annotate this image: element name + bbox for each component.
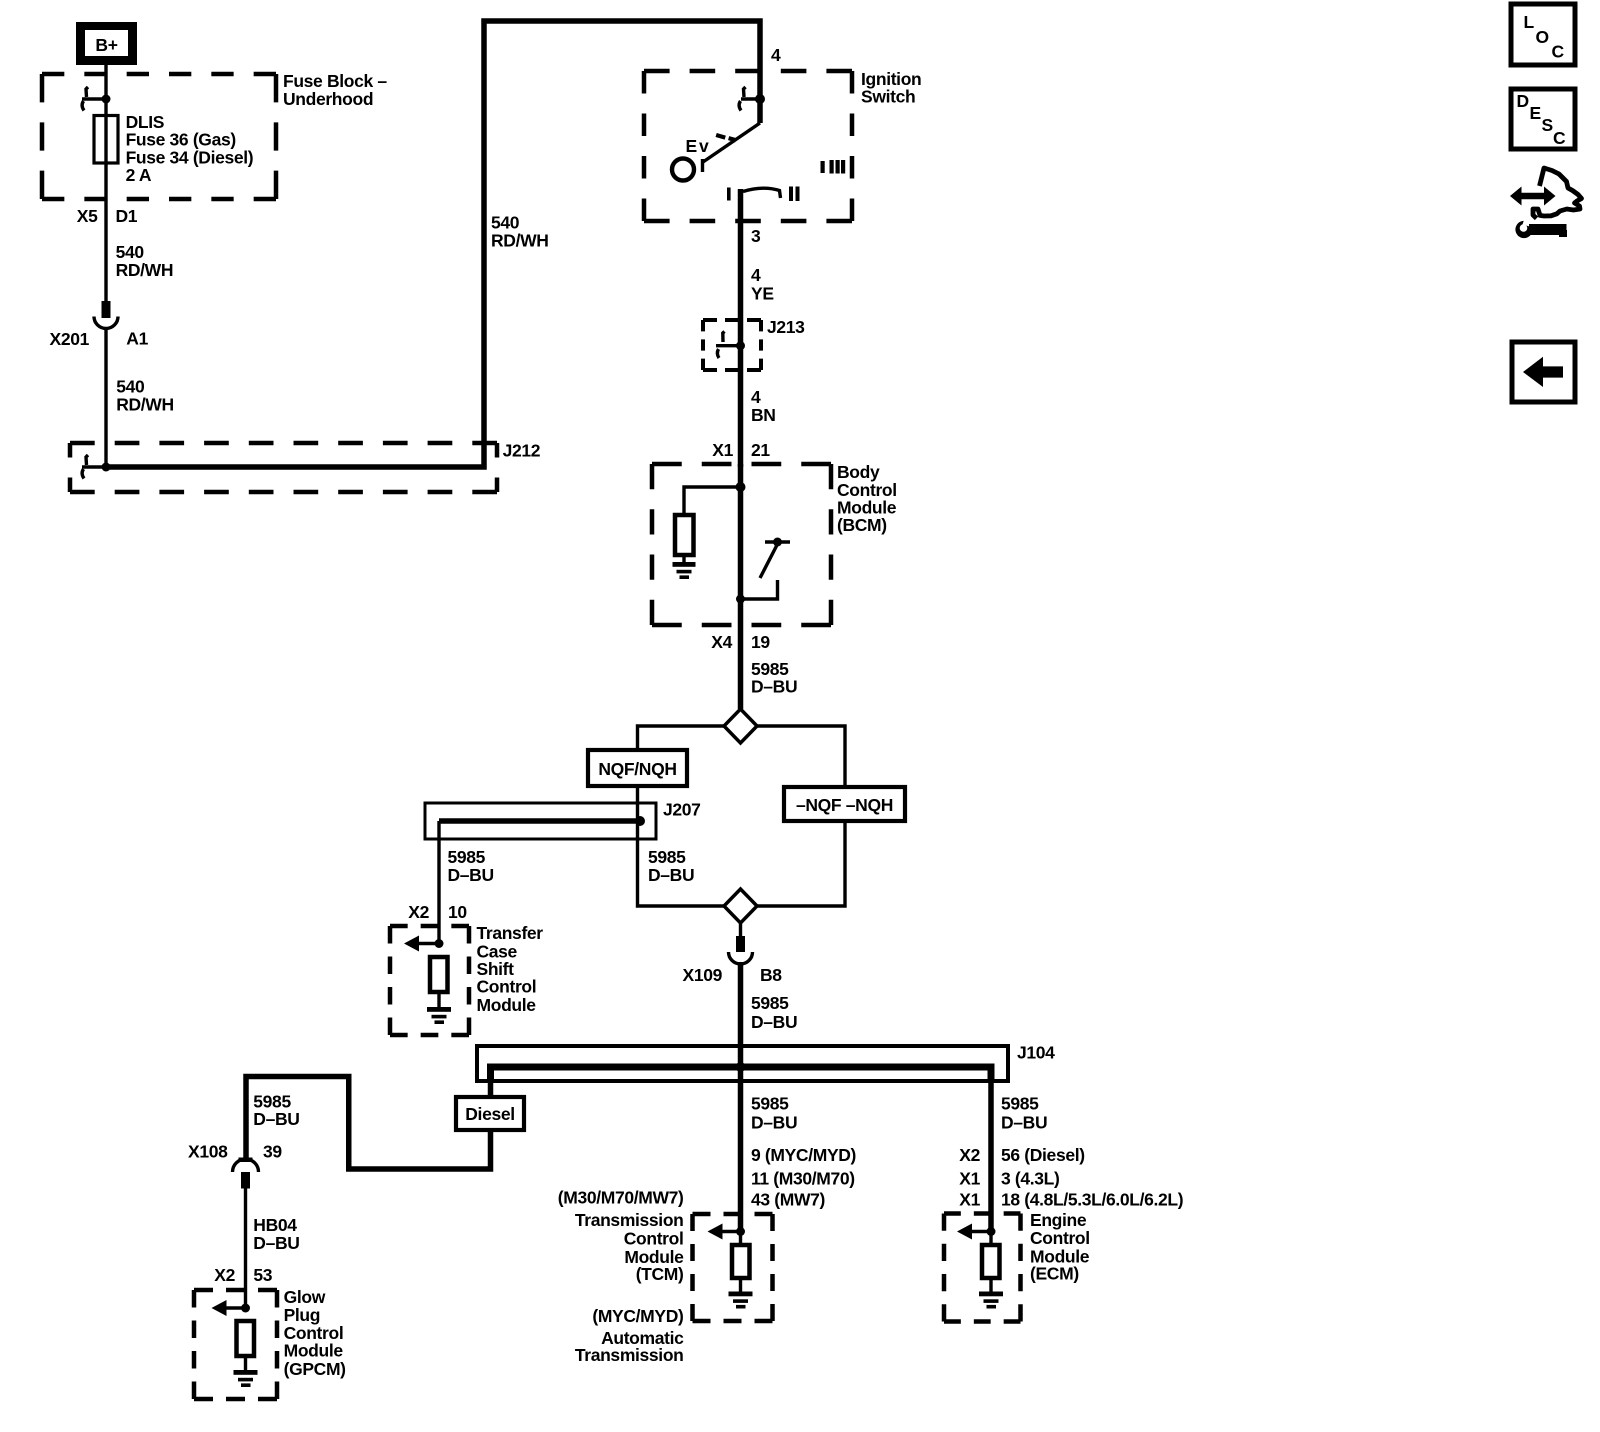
svg-text:5985: 5985 (1001, 1094, 1039, 1114)
arrow into transfer case module (404, 936, 444, 952)
glow plug control module GPCM dashed box (194, 1290, 277, 1399)
node BCM junction to resistor (736, 482, 746, 492)
svg-text:39: 39 (263, 1142, 282, 1162)
svg-text:2 A: 2 A (126, 165, 152, 185)
wire ignition contact stub (757, 99, 763, 123)
wire TCM junction to resistor (739, 1232, 742, 1246)
svg-text:J213: J213 (767, 317, 805, 337)
svg-text:540: 540 (491, 213, 520, 233)
svg-text:Switch: Switch (861, 87, 915, 107)
svg-text:5985: 5985 (448, 847, 486, 867)
svg-text:RD/WH: RD/WH (491, 231, 549, 251)
svg-text:v: v (699, 136, 709, 156)
svg-text:S: S (1542, 115, 1553, 135)
svg-text:X201: X201 (50, 329, 90, 349)
ignition switch dashed box (644, 71, 852, 221)
node BCM output junction (736, 595, 745, 604)
ground BCM internal (673, 562, 696, 579)
ground TCM (729, 1292, 753, 1309)
svg-text:Plug: Plug (284, 1305, 321, 1325)
splice symbol J213 (716, 332, 745, 359)
svg-text:18 (4.8L/5.3L/6.0L/6.2L): 18 (4.8L/5.3L/6.0L/6.2L) (1001, 1190, 1183, 1210)
svg-text:11 (M30/M70): 11 (M30/M70) (751, 1169, 855, 1189)
splice pack J104 (477, 1046, 1008, 1081)
svg-text:5985: 5985 (751, 993, 789, 1013)
splice J213 dashed box (703, 320, 761, 370)
wire BCM resistor branch (684, 487, 741, 515)
wire diamond to X109 (739, 923, 742, 938)
svg-text:Control: Control (1030, 1228, 1090, 1248)
wire J104 to ECM (988, 1081, 994, 1232)
ground GPCM (234, 1370, 258, 1387)
wire J207 tap to transfer case (437, 821, 440, 944)
option box Diesel (456, 1097, 524, 1130)
ignition input terminal splice (739, 87, 765, 111)
svg-text:D–BU: D–BU (751, 677, 797, 697)
svg-text:4: 4 (751, 265, 761, 285)
splice in fuse block (82, 87, 111, 111)
svg-text:19: 19 (751, 632, 770, 652)
svg-text:(MYC/MYD): (MYC/MYD) (592, 1306, 683, 1326)
position mark I (bottom) (727, 188, 731, 201)
transmission control module TCM dashed box (693, 1214, 773, 1321)
svg-text:Body: Body (837, 462, 880, 482)
svg-text:J207: J207 (663, 800, 701, 820)
wire X109 to J104 (738, 962, 744, 1081)
svg-text:L: L (1524, 12, 1535, 32)
wire resistor to ground (682, 555, 685, 562)
splice J212 dashed box (70, 443, 497, 492)
svg-text:B+: B+ (95, 35, 117, 55)
arrow into GPCM (212, 1300, 251, 1316)
inline connector X201 pin A1 (94, 301, 118, 329)
position sweep arc to II (743, 188, 781, 198)
wire X201 to J212 (104, 330, 107, 467)
svg-text:5985: 5985 (751, 1094, 789, 1114)
svg-text:X2: X2 (214, 1265, 235, 1285)
svg-text:5985: 5985 (648, 847, 686, 867)
svg-text:53: 53 (253, 1265, 272, 1285)
resistor TCM (732, 1245, 750, 1278)
svg-text:(ECM): (ECM) (1030, 1264, 1079, 1284)
svg-text:D: D (1517, 91, 1529, 111)
svg-text:BN: BN (751, 405, 776, 425)
wire resistor to ground (GPCM) (244, 1356, 247, 1370)
svg-text:D–BU: D–BU (253, 1233, 299, 1253)
svg-text:Transfer: Transfer (477, 923, 544, 943)
svg-text:J104: J104 (1017, 1043, 1055, 1063)
battery terminal B+ (76, 22, 137, 65)
svg-text:540: 540 (116, 377, 145, 397)
svg-text:D–BU: D–BU (751, 1113, 797, 1133)
svg-text:3 (4.3L): 3 (4.3L) (1001, 1169, 1059, 1189)
wire option loop right (757, 726, 845, 906)
wire ECM junction to resistor (989, 1232, 992, 1246)
svg-text:Fuse Block –: Fuse Block – (283, 71, 387, 91)
wire X108 to GPCM (244, 1186, 247, 1308)
svg-text:X108: X108 (188, 1142, 228, 1162)
svg-text:43 (MW7): 43 (MW7) (751, 1190, 825, 1210)
position mark I III (right) (821, 160, 846, 174)
option split diamond (top) (724, 709, 757, 743)
svg-text:D–BU: D–BU (1001, 1113, 1047, 1133)
svg-text:X109: X109 (683, 965, 723, 985)
svg-text:4: 4 (751, 387, 761, 407)
splice pack J207 (425, 803, 656, 839)
svg-text:(TCM): (TCM) (636, 1264, 684, 1284)
svg-text:Engine: Engine (1030, 1210, 1087, 1230)
wire BCM switch hook to output (741, 580, 778, 599)
wire option loop left (638, 726, 725, 906)
wire B+ to fuse block (104, 65, 107, 99)
resistor ECM (982, 1245, 1000, 1278)
svg-text:E: E (686, 136, 697, 156)
arrow into ECM (957, 1224, 996, 1240)
ignition switch lever (703, 123, 760, 162)
svg-text:Module: Module (477, 995, 537, 1015)
svg-text:9 (MYC/MYD): 9 (MYC/MYD) (751, 1145, 856, 1165)
svg-text:Transmission: Transmission (575, 1345, 684, 1365)
wire resistor to ground (transfer case) (437, 992, 440, 1007)
svg-text:Transmission: Transmission (575, 1210, 684, 1230)
ignition rotor circle (672, 159, 694, 181)
wire splice to fuse DLIS (104, 99, 107, 115)
svg-text:RD/WH: RD/WH (116, 395, 174, 415)
transfer case shift control module dashed box (390, 926, 469, 1035)
wire J104 to TCM (738, 1081, 744, 1232)
icon LOC button (1511, 4, 1575, 65)
svg-text:C: C (1553, 128, 1566, 148)
wire heavy feed J212 to ignition switch (106, 21, 760, 467)
svg-text:4: 4 (771, 45, 781, 65)
option box -NQF -NQH (784, 787, 905, 821)
engine control module ECM dashed box (944, 1214, 1021, 1322)
svg-text:O: O (1536, 27, 1549, 47)
svg-text:(GPCM): (GPCM) (284, 1359, 346, 1379)
fuse block underhood dashed box (42, 74, 276, 199)
svg-text:D1: D1 (116, 206, 138, 226)
svg-text:B8: B8 (760, 965, 782, 985)
resistor transfer case (430, 957, 448, 992)
svg-text:Glow: Glow (284, 1287, 326, 1307)
svg-text:HB04: HB04 (253, 1215, 297, 1235)
inline connector X108 pin 39 (233, 1158, 259, 1189)
svg-text:–NQF –NQH: –NQF –NQH (796, 795, 893, 815)
svg-text:X2: X2 (408, 902, 429, 922)
svg-text:Control: Control (624, 1229, 684, 1249)
svg-text:RD/WH: RD/WH (116, 260, 174, 280)
svg-text:56 (Diesel): 56 (Diesel) (1001, 1145, 1085, 1165)
splice symbol J212 (82, 455, 111, 479)
svg-text:3: 3 (751, 226, 761, 246)
wire BCM internal main (738, 464, 744, 599)
inline connector X109 pin B8 (729, 936, 753, 964)
svg-text:YE: YE (751, 284, 774, 304)
position mark II (789, 187, 800, 202)
svg-text:E: E (1530, 103, 1541, 123)
arrow into TCM (708, 1224, 746, 1240)
wire fuse to X201 (104, 163, 107, 301)
svg-text:X2: X2 (959, 1145, 980, 1165)
wire Diesel zigzag to X108 (246, 1077, 491, 1170)
wire resistor to ground (TCM) (739, 1278, 742, 1292)
icon back arrow button (1512, 342, 1575, 402)
BCM switch lever (760, 545, 777, 578)
svg-text:10: 10 (448, 902, 467, 922)
svg-text:C: C (1552, 42, 1565, 62)
wire J213 to BCM pin 21 (738, 345, 744, 467)
BCM switch fixed contact (765, 538, 790, 547)
svg-text:D–BU: D–BU (648, 865, 694, 885)
svg-text:Module: Module (284, 1341, 344, 1361)
svg-text:A1: A1 (126, 329, 148, 349)
ground ECM (979, 1292, 1003, 1309)
svg-text:X4: X4 (711, 632, 732, 652)
svg-text:D–BU: D–BU (751, 1012, 797, 1032)
svg-text:21: 21 (751, 440, 770, 460)
svg-text:Control: Control (477, 977, 537, 997)
svg-text:X1: X1 (959, 1169, 980, 1189)
body control module BCM dashed box (652, 464, 831, 625)
svg-text:J212: J212 (503, 441, 541, 461)
ignition rotor contact tick (701, 159, 704, 172)
svg-text:D–BU: D–BU (448, 865, 494, 885)
svg-text:NQF/NQH: NQF/NQH (598, 759, 676, 779)
option box NQF/NQH (588, 750, 687, 786)
svg-text:D–BU: D–BU (253, 1109, 299, 1129)
wire J104 to Diesel box (488, 1081, 494, 1097)
svg-text:(M30/M70/MW7): (M30/M70/MW7) (558, 1188, 684, 1208)
svg-text:X1: X1 (712, 440, 733, 460)
resistor GPCM (237, 1321, 255, 1356)
svg-text:540: 540 (116, 242, 145, 262)
ground transfer case (427, 1007, 451, 1024)
svg-text:X5: X5 (77, 206, 98, 226)
svg-text:Diesel: Diesel (465, 1104, 514, 1124)
option merge diamond (bottom) (724, 889, 757, 923)
wire ignition output pin 3 to J213 (738, 189, 744, 345)
resistor BCM pull-down (675, 515, 694, 555)
svg-text:(BCM): (BCM) (837, 515, 887, 535)
svg-text:X1: X1 (959, 1190, 980, 1210)
fuse DLIS (Fuse 36 Gas / Fuse 34 Diesel, 2 A) (94, 116, 118, 164)
icon schematic navigation (arrows, outline, wrench) (1510, 168, 1582, 238)
icon DESC button (1511, 89, 1575, 149)
svg-text:Underhood: Underhood (283, 89, 373, 109)
wire resistor to ground (ECM) (989, 1278, 992, 1292)
wire BCM pin 19 out (738, 599, 744, 709)
position marks near Ev (716, 133, 726, 140)
